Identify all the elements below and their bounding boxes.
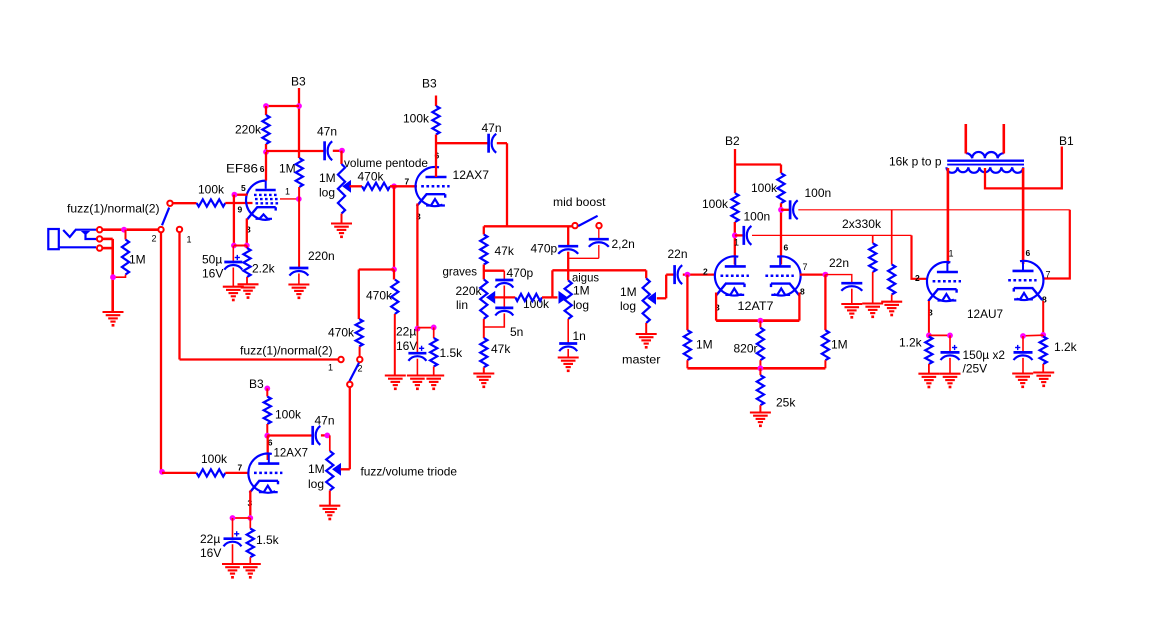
pin 3 AX7-1 — [416, 212, 421, 222]
pin 2 AU7 — [915, 273, 920, 283]
capacitor 22u-1 bottom — [416, 359, 418, 376]
capacitor 50u stub — [232, 246, 234, 263]
label 100k PI left — [702, 197, 729, 211]
label 1 SW2 — [328, 363, 333, 373]
wire cathode node join — [234, 245, 247, 247]
capacitor 2.2n — [589, 239, 609, 247]
wire grid node drop — [393, 186, 395, 269]
svg-text:220k: 220k — [456, 284, 483, 298]
potentiometer master 1M log — [643, 278, 650, 323]
label 220k — [235, 123, 262, 137]
jack sleeve terminal — [97, 245, 102, 250]
svg-text:fuzz/volume triode: fuzz/volume triode — [361, 465, 458, 479]
pin 8 AT7 — [800, 287, 805, 297]
label 1M log master — [620, 285, 637, 313]
label master — [622, 353, 661, 367]
svg-text:2x330k: 2x330k — [842, 217, 882, 231]
ground master — [636, 334, 657, 349]
tube 12AU7 right triode — [1008, 261, 1043, 300]
svg-text:B1: B1 — [1059, 134, 1074, 148]
ground 1n — [558, 358, 579, 373]
resistor 100k plate AX7-1 — [432, 106, 439, 135]
svg-text:150µ x2: 150µ x2 — [963, 348, 1006, 362]
wire 820r bottom — [759, 360, 761, 368]
pin 9 EF86 — [238, 205, 243, 215]
junction dot fuzz plate — [264, 433, 270, 439]
label 220k lin — [456, 284, 483, 312]
label pin 7 AX7-1 — [405, 177, 410, 187]
wire EF86 cathode stem — [246, 219, 248, 246]
wire output riser — [551, 270, 553, 297]
potentiometer aigus 1M log — [565, 280, 572, 319]
pin 6 AX7-2 — [268, 438, 273, 448]
svg-text:fuzz(1)/normal(2): fuzz(1)/normal(2) — [67, 202, 160, 216]
wire AT7 grid2 — [800, 273, 826, 275]
wire 1.2k-2 bottom — [1042, 364, 1044, 373]
junction dot cathode right — [244, 243, 250, 249]
label 1M log pot2 — [308, 462, 325, 491]
wire 47n-2 out — [497, 142, 507, 144]
junction dot at 1M top — [121, 227, 127, 233]
label 100n second — [805, 186, 832, 200]
svg-text:B2: B2 — [725, 134, 740, 148]
label 22u lower — [200, 532, 221, 560]
wire primary lead left — [947, 168, 950, 264]
jack ring terminal — [97, 236, 102, 241]
label 820r — [734, 342, 758, 356]
wire plate2 drop — [780, 203, 782, 264]
capacitor 470p-2 — [558, 246, 578, 254]
pot1 wiper arrow — [343, 181, 351, 192]
wire tone top right — [507, 225, 572, 227]
input jack J1 — [48, 229, 97, 249]
wire 1M left bottom — [686, 360, 688, 368]
capacitor 22u-1 stub — [416, 329, 418, 354]
svg-text:2: 2 — [915, 273, 920, 283]
svg-text:100k: 100k — [751, 181, 778, 195]
svg-text:7: 7 — [803, 262, 808, 272]
wire fuzz plate out — [267, 434, 311, 436]
capacitor 22u-2 stub — [232, 518, 234, 539]
pin 3 EF86 — [246, 225, 251, 235]
ground 47k bass — [473, 374, 494, 389]
svg-text:16V: 16V — [200, 546, 221, 560]
label 25k — [776, 396, 796, 410]
svg-text:1M: 1M — [129, 253, 146, 267]
svg-text:5: 5 — [241, 183, 246, 193]
resistor 1.5k lower — [247, 529, 254, 558]
label 5n — [510, 325, 523, 339]
label 100k grid EF86 — [198, 183, 225, 197]
label aigus — [572, 271, 599, 285]
wire EF86 plate stem — [265, 152, 267, 181]
wire branch left — [359, 268, 394, 270]
resistor 820r stub — [759, 321, 761, 328]
wire 22n-2 bottom — [851, 289, 853, 304]
svg-text:47n: 47n — [315, 414, 335, 428]
svg-text:47k: 47k — [495, 244, 515, 258]
wire SW1 to 100k — [173, 202, 197, 204]
svg-text:B3: B3 — [291, 75, 306, 89]
label 1.5k lower — [256, 533, 280, 547]
wire k1 jog — [929, 334, 950, 336]
wire 100k to plate — [435, 135, 437, 178]
switch SW2 common — [347, 382, 352, 387]
resistor 1.5k-1 — [430, 338, 437, 367]
wire master pot stub — [645, 270, 647, 278]
wire graves wiper — [495, 296, 516, 298]
wire SW1-1 to lower switch — [180, 358, 339, 360]
svg-text:1M: 1M — [696, 338, 713, 352]
wire 150u-1 bottom — [949, 358, 951, 374]
resistor 1M PI-left stub — [686, 275, 688, 331]
capacitor 50u plus — [235, 255, 240, 260]
capacitor 1n — [559, 344, 577, 352]
wire aigus bottom — [567, 319, 569, 344]
wire AT7 cathode 2 — [798, 293, 800, 321]
wire 1n bottom — [567, 349, 569, 358]
ground 22n PI — [841, 304, 862, 319]
svg-text:22µ: 22µ — [200, 532, 220, 546]
wire 470p-1 stub — [503, 271, 505, 280]
svg-text:47n: 47n — [482, 121, 502, 135]
junction dot 220k top — [263, 103, 269, 109]
wire 22n-2 jog — [825, 275, 851, 284]
resistor 25k — [757, 375, 764, 405]
label 100k PI right — [751, 181, 778, 195]
svg-text:B3: B3 — [422, 77, 437, 91]
svg-text:graves: graves — [443, 265, 478, 279]
label 1M dropper — [279, 162, 296, 176]
svg-text:7: 7 — [1046, 270, 1051, 280]
label 220n — [308, 249, 335, 263]
wire AU7-2 cathode — [1042, 301, 1044, 335]
wire jack sleeve — [103, 247, 113, 250]
svg-text:1: 1 — [949, 249, 954, 259]
wire 1M right bottom — [824, 360, 826, 368]
wire 470k leak bottom — [394, 314, 396, 376]
tube 12AT7 right triode — [765, 256, 800, 295]
label 16k p to p — [889, 155, 942, 169]
svg-text:1M: 1M — [620, 285, 637, 299]
pin 7 AT7 — [803, 262, 808, 272]
label 2x330k — [842, 217, 882, 231]
wire SW1-1 drop — [178, 232, 180, 359]
wire center tap — [985, 147, 1062, 189]
svg-text:1.2k: 1.2k — [1054, 340, 1078, 354]
label graves — [443, 265, 478, 279]
wire 330k-2 bottom — [891, 295, 893, 303]
junction dot c1 — [947, 333, 953, 339]
label 100k fuzz grid — [201, 452, 228, 466]
wire 47k bass bottom — [483, 367, 485, 374]
wire master bottom — [645, 323, 647, 334]
ground 22u-2 — [222, 564, 243, 579]
label 100k plate AX7-1 — [403, 112, 430, 126]
pin 2 AT7 — [703, 267, 708, 277]
junction dot 12AX7 grid — [391, 183, 397, 189]
wire g3 drop — [233, 195, 235, 246]
svg-text:220k: 220k — [235, 123, 262, 137]
junction dot fuzz 22u — [230, 515, 236, 521]
wire 100n-2 out — [798, 209, 1070, 211]
ground 25k — [750, 413, 771, 428]
resistor R input 1M — [122, 240, 129, 275]
pot graves wiper arrow — [487, 292, 495, 303]
wire 1.5k-2 bottom — [249, 557, 251, 564]
svg-text:470k: 470k — [366, 289, 393, 303]
wire node to 470p — [484, 270, 505, 272]
wire B3 horizontal — [266, 105, 299, 107]
svg-text:1.5k: 1.5k — [256, 533, 280, 547]
junction dot tail — [758, 318, 764, 324]
wire secondary lead left — [964, 124, 967, 154]
resistor 1M PI right — [822, 330, 829, 360]
svg-text:5n: 5n — [510, 325, 523, 339]
label 50u — [202, 253, 223, 281]
junction dot 47n out — [339, 148, 345, 154]
wire 2.2n jog left — [568, 257, 599, 259]
resistor 1.5k-2 stub — [249, 518, 251, 529]
pin 5 EF86 — [241, 183, 246, 193]
wire 1M bottom jog — [113, 275, 126, 278]
label 2,2n — [612, 237, 635, 251]
wire jack down to ground — [111, 239, 114, 312]
svg-text:100k: 100k — [201, 452, 228, 466]
capacitor 150u-1 stub — [949, 335, 951, 352]
label 12AX7 second — [274, 446, 309, 460]
junction dot fuzz grid — [159, 469, 165, 475]
wire pot1 bottom — [341, 214, 343, 224]
capacitor 50u bottom stub — [232, 268, 234, 287]
potentiometer fuzz 1M log — [326, 451, 333, 491]
label 1n — [573, 329, 586, 343]
switch SW1 lever — [162, 208, 169, 226]
svg-text:7: 7 — [405, 177, 410, 187]
tube 12AX7 first triode — [416, 167, 450, 206]
wire 22n out — [683, 273, 716, 275]
wire g3 to cathode node — [234, 194, 247, 196]
wire 47n-3 out — [321, 434, 327, 436]
wire 100k fuzz to plate — [266, 424, 268, 436]
pin 3 AT7 — [715, 303, 720, 313]
svg-text:log: log — [620, 299, 636, 313]
pot2 wiper arrow — [333, 464, 341, 475]
wire 2.2n bottom — [598, 245, 600, 258]
wire plate1 drop — [734, 222, 736, 265]
capacitor 47n coupling 2 — [489, 134, 497, 153]
wire pot2 wiper — [341, 468, 350, 470]
svg-text:1M: 1M — [573, 284, 590, 298]
svg-text:log: log — [319, 186, 335, 200]
pin 8 AU7 — [1042, 295, 1047, 305]
label 47n first — [317, 125, 337, 139]
resistor 220k stub bottom — [265, 144, 267, 152]
wire plate node right — [436, 142, 488, 144]
label fuzz(1)/normal(2) lower — [240, 344, 333, 358]
svg-text:12AU7: 12AU7 — [967, 307, 1003, 321]
wire jack ring — [103, 238, 113, 241]
svg-text:470k: 470k — [328, 326, 355, 340]
label 1M log aigus — [573, 284, 590, 313]
wire bias bus — [687, 367, 825, 370]
junction dot 470k node — [391, 267, 397, 273]
wire 25k bottom — [759, 405, 761, 413]
wire fuzz grid 2 — [225, 472, 249, 474]
svg-text:22n: 22n — [829, 256, 849, 270]
wire 150u-2 bottom — [1022, 358, 1024, 374]
label 2 SW2 — [358, 364, 363, 374]
pin 3 AU7 — [928, 308, 933, 318]
capacitor 150u-2 stub — [1022, 336, 1024, 352]
resistor 1.2k-2 stub — [1042, 335, 1044, 336]
svg-text:volume pentode: volume pentode — [344, 156, 428, 170]
svg-text:2,2n: 2,2n — [612, 237, 635, 251]
pot master wiper arrow — [648, 293, 656, 304]
junction dot EF86 plate node — [263, 149, 269, 155]
svg-text:25k: 25k — [776, 396, 796, 410]
wire to 12AX7 grid — [390, 185, 417, 187]
tube EF86 — [246, 180, 280, 220]
wire AX7-1 cathode drop — [416, 204, 418, 329]
junction dot 1.5k top — [431, 325, 437, 331]
switch SW2 lever — [349, 363, 359, 381]
pin 1 AT7 — [734, 238, 739, 248]
wire SW2 common drop — [349, 387, 351, 469]
resistor 1.2k left — [925, 337, 932, 365]
svg-text:1: 1 — [734, 238, 739, 248]
wire secondary lead right — [1002, 124, 1005, 154]
junction dot plate1 — [732, 233, 738, 239]
resistor 100k fuzz plate — [264, 397, 271, 425]
wire fuzz plate stem — [267, 436, 269, 460]
wire 47k stub — [483, 226, 485, 234]
tube 12AU7 left triode — [927, 262, 961, 301]
capacitor 100n first — [744, 226, 752, 245]
wire graves pot bottom — [483, 319, 485, 338]
svg-text:7: 7 — [238, 463, 243, 473]
label 12AX7 first — [453, 168, 490, 182]
wire wiper to 470k — [350, 185, 363, 187]
label 12AU7 — [967, 307, 1003, 321]
junction dot 22u top — [415, 326, 421, 332]
pin 1 AU7 — [949, 249, 954, 259]
switch mid boost terminal 2 — [596, 223, 601, 228]
potentiometer 1M log volume — [338, 164, 345, 214]
capacitor 50u — [224, 262, 242, 270]
wire pot2 stub — [329, 435, 331, 451]
switch mid boost terminal 1 — [572, 223, 577, 228]
label 470p graves — [507, 266, 534, 280]
svg-text:1M: 1M — [831, 338, 848, 352]
svg-text:2.2k: 2.2k — [252, 262, 276, 276]
label 1.2k right — [1054, 340, 1078, 354]
capacitor 22n PI — [841, 283, 862, 291]
capacitor 47n fuzz — [313, 426, 321, 445]
label 1.5k upper — [440, 346, 464, 360]
ground 2.2k — [238, 284, 259, 299]
switch SW2 terminal 2 — [357, 357, 362, 362]
wire 47n-2 corner drop — [506, 143, 508, 226]
svg-text:47n: 47n — [317, 125, 337, 139]
svg-text:8: 8 — [800, 287, 805, 297]
svg-text:22µ: 22µ — [396, 325, 416, 339]
wire 330k-1 bottom — [872, 272, 874, 304]
label 470k grid leak — [366, 289, 393, 303]
wire 5n bottom jog — [484, 313, 504, 327]
resistor 470k series — [362, 183, 390, 190]
junction dot c2 — [1020, 333, 1026, 339]
label 470p aigus — [531, 242, 558, 256]
switch SW1 terminal 2 — [158, 227, 163, 232]
jack tip terminal — [97, 227, 102, 232]
label 2 — [152, 234, 157, 244]
wire SW1-2 drop — [160, 233, 162, 472]
svg-text:mid boost: mid boost — [553, 195, 606, 209]
svg-text:16k p to p: 16k p to p — [889, 155, 942, 169]
label 47k top — [495, 244, 515, 258]
wire into 22n — [666, 273, 674, 275]
label 12AT7 — [738, 299, 774, 313]
wire branch drop to 470k sw — [358, 270, 360, 320]
resistor 1M PI left — [684, 330, 691, 360]
tube 12AT7 left triode — [715, 256, 749, 295]
svg-text:/25V: /25V — [963, 362, 988, 376]
label 100n first — [744, 210, 771, 224]
resistor R input 1M stub top — [125, 230, 127, 240]
ground 150u right — [1012, 374, 1033, 389]
svg-text:1M: 1M — [319, 171, 336, 185]
wire 100k-4 stub — [780, 165, 782, 174]
ground 150u left — [940, 374, 961, 389]
svg-text:1M: 1M — [279, 162, 296, 176]
label 22u upper — [396, 325, 417, 354]
wire k2 jog — [1023, 334, 1043, 337]
label fuzz/volume triode — [361, 465, 458, 479]
wire primary lead right — [1022, 168, 1025, 264]
resistor 100k fuzz grid — [197, 469, 226, 476]
label 2.2k — [252, 262, 276, 276]
svg-text:1: 1 — [328, 363, 333, 373]
wire B3 drop — [298, 88, 300, 158]
pin 1 EF86 — [285, 187, 290, 197]
capacitor 100n second — [790, 200, 798, 219]
junction dot plate2 — [778, 207, 784, 213]
label 47n second — [482, 121, 502, 135]
wire 470p-2 stub top — [567, 226, 569, 246]
svg-text:6: 6 — [1026, 248, 1031, 258]
capacitor 5n stub — [503, 297, 505, 308]
label 22n PI — [829, 256, 849, 270]
svg-text:log: log — [308, 477, 324, 491]
resistor 220k stub top — [265, 106, 267, 115]
svg-text:100k: 100k — [702, 197, 729, 211]
wire 100k tone right — [542, 296, 552, 298]
pin 7 AX7-2 — [238, 463, 243, 473]
resistor 100k PI right — [777, 173, 784, 203]
svg-text:12AX7: 12AX7 — [453, 168, 490, 182]
resistor 100k fuzz stub — [266, 388, 268, 396]
resistor 330k second — [888, 265, 895, 295]
wire 22u-2 bottom — [232, 544, 234, 564]
wire grid1 corner — [912, 235, 928, 278]
svg-text:log: log — [573, 298, 589, 312]
resistor 330k first — [869, 243, 876, 272]
label B3 third — [249, 377, 264, 391]
svg-text:9: 9 — [238, 205, 243, 215]
switch mid boost lever — [578, 216, 597, 226]
resistor 470k grid leak — [391, 280, 398, 315]
